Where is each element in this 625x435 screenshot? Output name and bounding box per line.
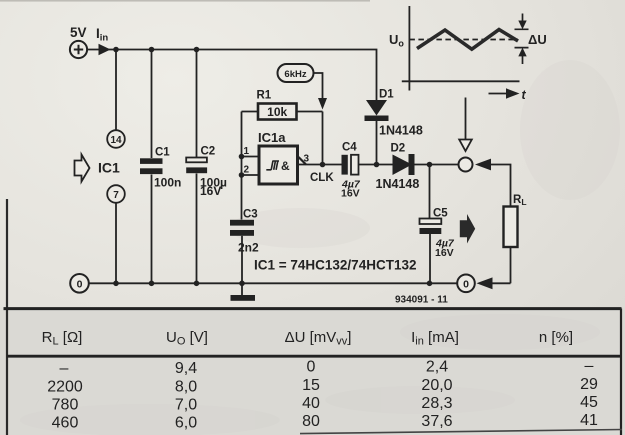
terminal 0 right — [457, 275, 475, 293]
resistor RL — [504, 194, 527, 283]
wire C1 bottom — [151, 175, 153, 284]
wire C4 to D2 — [359, 164, 393, 166]
table data row 2 — [47, 376, 598, 396]
terminal output — [459, 158, 473, 172]
junction top rail x196 — [194, 47, 200, 53]
terminal 0 left — [70, 274, 89, 293]
junction 0 rail x151 — [149, 281, 155, 287]
svg-text:934091 - 11: 934091 - 11 — [395, 295, 448, 306]
svg-text:IC1: IC1 — [98, 160, 120, 176]
junction CLK — [320, 162, 326, 168]
table data row 1 — [60, 358, 594, 378]
wire RL bottom to 0 — [491, 282, 511, 284]
wire pin7 to 0 rail — [115, 203, 117, 283]
wire bottom rail — [89, 282, 457, 284]
svg-text:20,0: 20,0 — [421, 377, 452, 394]
graph waveform — [417, 30, 518, 50]
output block arrow — [460, 214, 475, 244]
svg-text:80: 80 — [302, 413, 320, 430]
svg-text:RL [Ω]: RL [Ω] — [42, 329, 83, 348]
svg-text:2200: 2200 — [47, 379, 83, 396]
svg-text:–: – — [60, 360, 69, 377]
ground — [231, 283, 256, 301]
junction 0 rail x242 — [239, 281, 245, 287]
junction 0 rail x196 — [194, 281, 200, 287]
wire gate output — [298, 164, 342, 166]
svg-text:1: 1 — [244, 146, 250, 157]
svg-text:40: 40 — [302, 395, 320, 412]
junction top rail x151 — [149, 47, 155, 53]
svg-text:C5: C5 — [433, 208, 448, 220]
diode D2 — [376, 143, 459, 192]
svg-text:8,0: 8,0 — [175, 379, 197, 396]
wire CLK drop — [322, 112, 324, 165]
capacitor C4 — [341, 142, 361, 200]
graph axes — [402, 6, 520, 91]
wire C1 top — [151, 50, 153, 159]
junction pin1 — [239, 154, 245, 160]
output probe wire — [465, 98, 467, 140]
svg-text:780: 780 — [52, 397, 79, 414]
svg-text:16V: 16V — [200, 184, 221, 198]
arrowhead into 0 right — [477, 277, 493, 289]
diode D1 — [365, 89, 423, 165]
svg-text:37,6: 37,6 — [421, 413, 452, 430]
pin 14 — [107, 130, 125, 148]
wire top rail — [88, 50, 377, 101]
svg-text:9,4: 9,4 — [175, 360, 197, 377]
svg-text:0: 0 — [307, 359, 316, 376]
hysteresis glyph — [266, 161, 279, 170]
junction 0 rail x116 — [113, 281, 119, 287]
svg-text:45: 45 — [580, 394, 598, 411]
oscillator label 6kHz — [278, 64, 328, 110]
capacitor C3 — [230, 209, 259, 284]
svg-text:6,0: 6,0 — [175, 415, 197, 432]
arrowhead into output — [475, 159, 491, 171]
IC1 package arrow — [75, 155, 90, 182]
table data row 3 — [52, 394, 598, 414]
capacitor C5 — [420, 165, 455, 284]
svg-text:C1: C1 — [155, 147, 170, 159]
svg-text:460: 460 — [52, 415, 79, 432]
svg-text:7,0: 7,0 — [175, 397, 197, 414]
junction C4/D1/D2 — [374, 162, 380, 168]
svg-text:C4: C4 — [342, 142, 357, 154]
top scan edge — [0, 0, 370, 2]
svg-text:100n: 100n — [154, 176, 181, 190]
pin 7 — [107, 185, 125, 203]
svg-text:1N4148: 1N4148 — [376, 177, 420, 191]
svg-text:16V: 16V — [435, 247, 454, 259]
wire output to RL — [489, 165, 511, 207]
svg-text:D1: D1 — [379, 89, 394, 101]
svg-text:14: 14 — [110, 135, 122, 146]
wire C2 top — [196, 50, 198, 158]
svg-text:10k: 10k — [267, 105, 287, 119]
svg-text:IC1 = 74HC132/74HCT132: IC1 = 74HC132/74HCT132 — [254, 258, 416, 273]
table data row 4 — [52, 412, 598, 432]
svg-text:ΔU: ΔU — [528, 32, 547, 47]
svg-text:UO [V]: UO [V] — [166, 329, 208, 348]
svg-text:0: 0 — [463, 278, 469, 290]
svg-text:1N4148: 1N4148 — [379, 124, 423, 138]
svg-text:15: 15 — [302, 377, 320, 394]
table frame — [4, 309, 623, 435]
dimension dU — [515, 14, 547, 65]
svg-text:5V: 5V — [70, 25, 87, 40]
svg-text:41: 41 — [580, 412, 598, 429]
graph dashed level — [409, 39, 518, 41]
svg-text:&: & — [281, 159, 290, 173]
wire pin14 drop — [115, 50, 117, 131]
page rule artifact (left) — [6, 199, 8, 435]
gate IC1a — [242, 130, 342, 184]
svg-text:IC1a: IC1a — [258, 130, 286, 145]
svg-text:2n2: 2n2 — [238, 241, 259, 255]
capacitor C1 — [140, 147, 181, 190]
svg-text:2: 2 — [244, 165, 250, 176]
table zone tint — [0, 310, 625, 435]
current arrow Iin — [99, 44, 111, 55]
svg-text:–: – — [585, 358, 594, 375]
svg-text:0: 0 — [77, 278, 83, 290]
svg-text:6kHz: 6kHz — [284, 69, 306, 80]
resistor R1 — [242, 90, 323, 120]
svg-text:29: 29 — [580, 376, 598, 393]
table header — [42, 329, 573, 348]
time axis arrow — [489, 88, 527, 102]
svg-text:16V: 16V — [341, 188, 360, 200]
capacitor C2 (electrolytic) — [186, 146, 227, 199]
svg-text:7: 7 — [113, 190, 119, 201]
svg-text:n [%]: n [%] — [539, 329, 573, 346]
junction C5 — [427, 162, 433, 168]
supply terminal + — [70, 41, 87, 58]
junction 0 rail x429 — [427, 281, 433, 287]
output probe open arrow — [459, 140, 472, 152]
svg-text:D2: D2 — [391, 143, 406, 155]
wire feedback (R1 left / pins 1-2 / C3) — [241, 112, 243, 220]
svg-text:2,4: 2,4 — [426, 359, 448, 376]
svg-text:C3: C3 — [243, 209, 258, 221]
wire C2 bottom — [196, 174, 198, 284]
svg-text:CLK: CLK — [310, 172, 334, 184]
output wedge — [299, 157, 307, 165]
svg-text:R1: R1 — [257, 90, 272, 102]
svg-text:C2: C2 — [201, 146, 216, 158]
junction pin2 — [239, 172, 245, 178]
svg-text:28,3: 28,3 — [421, 395, 452, 412]
junction top rail x116 — [113, 47, 119, 53]
